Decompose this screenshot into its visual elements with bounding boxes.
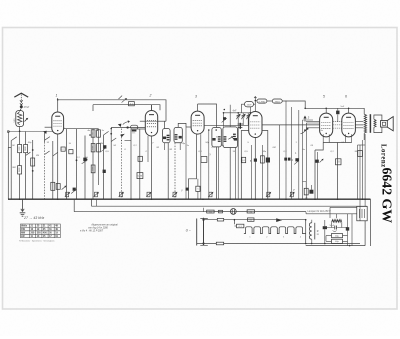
wire col x11 [10,141,12,200]
capacitor C14 4nF [237,116,240,117]
paper texture [0,0,1,1]
switch arrow [43,131,47,134]
svg-text:Lampen für 110-150 V: Lampen für 110-150 V [308,211,331,213]
wire col x362.5 [362,140,364,199]
dial lamp LP1 [230,209,236,215]
electrolytic blob right [346,227,349,230]
zigzag resistor R26 [332,220,342,223]
junction on bus [151,198,153,200]
trimmer near bus x121.0 [119,192,124,197]
wire bottom row right [306,243,360,245]
wire col x267.8 [262,131,268,200]
wire col x291.4 [290,107,292,199]
speaker horn [387,117,393,131]
junction [255,100,257,102]
resistor R18 [336,159,342,165]
junction [215,129,217,131]
trimmer near bus x174.5 [172,192,177,197]
junction on bus [202,198,204,200]
capacitor C15 [242,116,245,117]
junction [250,112,252,114]
junction on bus [255,198,257,200]
wire [305,212,307,214]
wire drop to T2b [223,113,225,127]
wire col x241.3 [241,131,248,200]
wire heater end riser [304,220,306,244]
wire col x25.6 [25,132,27,200]
wire T2b top [229,105,231,127]
wire [8,147,11,149]
wire col x139.8 [139,129,141,199]
resistor R19 [358,151,363,157]
capacitor C17 (block) [266,158,270,163]
wire cap leads [324,220,326,244]
wire to HT rail [282,101,305,108]
junction [224,109,226,111]
wire col x76.5 [76,129,78,200]
bus C [74,211,306,213]
ground hatch [20,213,26,216]
wire OT primary bottom [363,133,365,140]
svg-text:15nF: 15nF [247,105,252,107]
cap row wires [325,227,348,229]
trimmer near bus x268.3 [266,192,271,197]
diode arrow [276,218,282,222]
antenna lead dashed [20,95,22,105]
wire stub [304,119,306,122]
svg-text:1: 1 [56,94,58,98]
wire V2 pin left 2 [131,128,145,130]
wire right edge down [370,199,372,246]
wire caps rail [224,112,251,114]
wire col x32.7 [32,140,34,199]
junction on bus [229,198,231,200]
wire col x317.5 [317,152,319,199]
tube V4 (output) [249,112,262,138]
output transformer T3 primary [364,114,366,133]
switch arm [53,153,58,157]
resistor R23 [248,218,255,222]
trimmer near bus x148.5 [146,192,151,197]
svg-text:675: 675 [132,133,135,135]
transformer core bar [369,114,371,133]
antenna coil L1 [16,111,24,127]
wire V6 to OT [355,124,363,126]
svg-text:Lorenz: Lorenz [380,144,387,168]
wire heater link [323,142,351,144]
wire V2 cathode to bus [151,136,153,199]
wires to boxes [303,182,312,190]
wire col x44.6 [44,132,46,143]
cap links left [326,236,332,242]
wire col x44.6 dashed [44,142,46,199]
resistor R6 [91,130,95,137]
svg-text:Abgenommen am original: Abgenommen am original [90,223,118,226]
wire col x131 [130,129,132,199]
svg-text:Welle: Welle [21,226,28,228]
svg-text:3: 3 [195,95,197,99]
wire V5 cathode col x315 [315,143,323,200]
wire V1 pin left [45,126,52,128]
capacitor C20 (block) [315,160,319,163]
wire col x98.5 [98,129,100,185]
wire col x218.5 [218,147,220,199]
tube V2 (EBF) [145,111,157,137]
wire link [358,144,366,146]
tube V6 (rect b) [342,113,356,137]
junction [325,108,327,110]
bus chassis [8,198,371,200]
capacitor C13 15nF (stadium) [245,102,254,107]
wire speaker bottom link [374,127,382,133]
svg-text:R: R [317,230,319,233]
svg-text:50µF: 50µF [330,225,335,227]
switch stack [240,123,241,129]
resistor R10 [137,173,143,179]
junction on bus [337,198,339,200]
resistor R8 [91,144,95,152]
wire col x248.2 [247,113,249,126]
resistor R20 [207,210,214,213]
mains rail left [196,219,198,246]
junction on bus [362,198,364,200]
svg-text:10000: 10000 [25,146,27,151]
svg-text:500: 500 [14,118,16,122]
wire drop [96,199,98,206]
junction [76,159,78,161]
junction [110,128,112,130]
wire col x168.2 [167,143,169,199]
trimmer near bus x210.5 [208,192,213,197]
antenna arrowheads [20,100,23,105]
wire col x8 [7,148,9,200]
wire V1 cathode to bus [57,134,59,199]
wire zigzag feed [335,214,337,218]
dropper resistor box [357,206,367,220]
svg-text:5nF: 5nF [341,106,345,108]
capacitor C20b [304,188,308,195]
switch arrow [118,124,122,127]
switch arm [26,152,31,155]
tube V1 (ECH) [52,112,64,134]
capacitor C4b [61,147,65,151]
junction mains bottom [202,242,204,244]
ground arrow [21,199,24,211]
wire band link [8,131,53,133]
wire heater drop [233,220,235,225]
junction [234,219,236,221]
svg-text:15000: 15000 [93,167,95,172]
wire col x286 [285,101,287,200]
resistor R5 [51,182,55,190]
svg-text:5: 5 [323,95,325,99]
wire V3 cathode jog [189,134,197,199]
junction [223,112,225,114]
trimmer near bus x67.2 [65,192,70,197]
wire col x243.2 [242,113,244,126]
resistor R9 [97,144,101,152]
junction mains top [202,219,204,221]
antenna coupling capacitor [20,105,23,108]
bus B [92,205,368,207]
resistor R2 [18,166,22,174]
capacitor C7 [56,184,60,190]
wire col x175 dashed AVC [174,143,176,199]
junction [311,243,313,245]
wire [330,206,357,208]
junction on bus [314,198,316,200]
svg-text:6: 6 [345,95,347,99]
wire col x186 [185,127,187,199]
wire col x235.3 [234,148,236,200]
wire through V2 [145,120,157,122]
cap links [343,236,348,242]
svg-text:47nF: 47nF [24,106,30,109]
wire col x238.2 [237,113,239,199]
wire [147,136,149,162]
resistor R9b [91,165,95,173]
resistor R7 [97,130,101,137]
wire V1 grid top [57,98,59,112]
wire drop [92,105,94,111]
node [121,140,123,142]
tube V5 (rect a) [320,113,333,137]
junction on bus [19,198,21,200]
wire [7,132,9,148]
wire T1b top [178,123,186,127]
svg-text:0,1M: 0,1M [138,176,143,178]
IF transformer T2a [212,128,221,147]
svg-text:H. Messkreis · Sprechkreis · S: H. Messkreis · Sprechkreis · Schwingkrei… [19,239,54,242]
wire col x306.3 [305,123,307,199]
svg-text:0,7MΩ: 0,7MΩ [259,102,266,104]
capacitor C5 blob [83,158,86,162]
switch arm [45,151,50,155]
wire into T1a [164,121,166,128]
junction [237,112,239,114]
wire lamp row [214,211,306,213]
resistor R4 [31,158,35,166]
junction [324,243,326,245]
filter choke L5 [309,223,314,240]
switch arm [104,131,109,135]
IF transformer T1a [163,129,171,143]
svg-text:von Aug 14 in 2006: von Aug 14 in 2006 [88,226,108,229]
speaker LS driver [381,121,388,128]
wire col x357.5 [357,145,359,199]
wire antenna coil to node [19,127,21,132]
capacitor C25 40uF [332,239,343,243]
wire [255,100,256,102]
junction on bus [130,198,132,200]
oscillator coil L3 (stadium) [131,125,138,129]
switch arm [111,138,116,142]
switch arm [11,137,17,141]
wire col x208.8 [208,130,210,199]
coil tap arrow [25,118,28,121]
switch arm [45,137,50,141]
svg-text:1M: 1M [233,151,236,153]
capacitor C4c [69,150,73,154]
capacitor C12b [196,186,200,191]
wire col x121.5 dashed shaft [121,129,123,200]
wire col x302.5 [302,120,304,199]
resistor R16 [260,156,264,163]
wire V1 right pin rail [64,128,99,130]
tube V3 [191,111,204,134]
svg-text:e.Vio 4 : AV 12 F-2007: e.Vio 4 : AV 12 F-2007 [80,230,104,233]
svg-text:1000: 1000 [93,146,95,150]
resistor R22 [217,218,223,221]
wire col x52.8 [52,141,54,199]
wire box stubs [197,179,199,199]
junction [348,108,350,110]
junction [89,134,91,136]
junction [32,170,34,172]
resistor R20b [219,210,223,213]
capacitor C19 (triangle) [303,116,306,119]
resistor R21 [247,210,255,214]
wire stub [179,143,181,150]
svg-text:50: 50 [93,133,95,135]
wire V3 anode to T2 [198,104,217,128]
wire grid rails [306,121,363,123]
svg-text:2M: 2M [272,147,276,149]
wire stadium left lead [242,104,245,113]
svg-text:6642 GW: 6642 GW [380,168,395,224]
wire V2 right pin [158,120,166,122]
wire shared grids V5 V6 [333,122,342,128]
wire link [125,140,132,142]
wire col x365.1 [364,134,366,206]
wires right rails [348,214,353,246]
resistor R14 0,7MΩ (pill) [257,99,267,104]
junction [97,129,99,131]
svg-text:gg: gg [317,234,319,236]
svg-text:4nF: 4nF [233,110,238,113]
wire col x360 [359,145,361,221]
zigzag leads [332,222,342,227]
trimmer near bus x96.0 [94,192,99,197]
junction [349,245,351,247]
mains rail right [203,218,205,246]
wire top loop outer [58,100,166,121]
wire [20,108,21,110]
wire [203,208,205,212]
junction [305,243,307,245]
capacitor C19b blob [295,158,298,161]
heater chain humps [244,227,304,234]
wire grid rails2 [306,127,363,129]
wire col x298.8 [298,110,300,199]
svg-text:15000: 15000 [19,167,21,172]
wire arrow up [254,97,256,101]
resistor R11 [201,157,207,163]
junction [126,126,128,128]
wire stadium bottom drop [249,107,251,113]
resistor R10b [138,156,142,161]
wire col x216.5 [216,147,218,199]
wire col x66.4 [65,129,67,200]
wire col x230.2 [229,148,231,200]
junction [110,133,112,135]
wire col x19.6 [19,131,21,199]
wire col x111.2 [110,129,112,200]
wire diode rail [204,124,249,126]
trimmer near bus x291.8 [289,192,294,197]
junction [32,149,34,151]
wire col x262.4 [261,145,263,199]
capacitor C21 0.1 [237,224,244,228]
svg-text:5000: 5000 [19,147,21,151]
wire V2 top [151,105,153,111]
resistor R3 [24,145,28,153]
wire stub [164,143,166,150]
wire V4 cathode [254,138,256,200]
wire V2 pin left [140,120,146,122]
wire V3 top [197,104,199,111]
wire HT rail to OT [305,108,364,114]
wire col x279.6 [279,125,281,199]
IF transformer T1b [174,127,182,142]
junction on bus [91,198,93,200]
junction [19,130,21,132]
junction [57,99,59,101]
capacitor blobs col 103.5 [103,145,106,148]
junction [304,129,306,131]
junction on bus [174,198,176,200]
trimmer at 224.5 [223,117,226,120]
resistor R15 25kΩ (pill) [272,99,282,104]
volume arrow [301,128,309,134]
svg-text:25kΩ: 25kΩ [274,102,281,104]
wire IF to V3 [186,126,191,128]
junction on bus [57,198,59,200]
wire col x85 [84,136,86,200]
capacitor C22 electrolytic [323,226,327,229]
wire links [303,120,320,123]
capacitor C13b [242,157,246,162]
wire lampen row [306,213,357,215]
wire mains bottom row [197,243,306,245]
wire [329,207,331,218]
wire col x103.5 [103,135,105,199]
wire col x337.5 [337,143,339,200]
svg-text:0,1: 0,1 [243,160,246,162]
bus C drop [73,199,75,212]
wire [267,100,272,102]
terminal circle [7,131,9,133]
junction [304,108,306,110]
svg-text:27 → 43 kHz: 27 → 43 kHz [23,216,44,220]
choke leads [311,220,313,244]
wire coupling V4-V5 [262,124,320,126]
wire stadium to grid [254,103,256,105]
value labels [12,128,359,170]
wire speaker top link [374,115,382,121]
IF transformer T2b [223,127,238,148]
capacitor pair blobs [284,158,287,161]
wire V4 grid up [254,101,256,112]
resistor R24 [216,242,223,245]
wire top loop inner [93,105,160,111]
wire col x251.6 [251,145,253,199]
wire [234,225,236,227]
cap stubs [337,108,339,121]
mains ticks [200,219,208,246]
junction [364,198,366,200]
capacitor C16b blob [254,159,257,162]
